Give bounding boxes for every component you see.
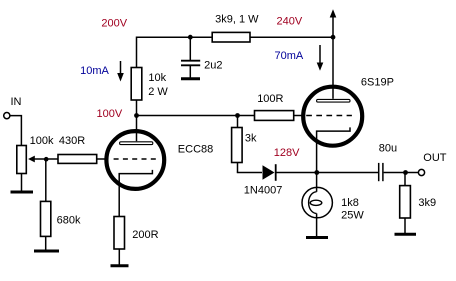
- 6S19P envelope circle: [303, 87, 362, 146]
- node junction dot output node: [403, 170, 408, 175]
- diode D1 1N4007: [263, 164, 276, 181]
- svg-text:2u2: 2u2: [204, 59, 222, 71]
- triode U1 ECC88: [106, 116, 164, 217]
- node junction dot grid node: [44, 157, 49, 162]
- svg-text:680k: 680k: [57, 214, 81, 226]
- terminal OUT: [418, 169, 424, 175]
- svg-text:70mA: 70mA: [275, 50, 304, 62]
- svg-text:430R: 430R: [59, 135, 85, 147]
- svg-text:1k8: 1k8: [341, 197, 359, 209]
- wire 100R to 6S19P grid: [294, 115, 303, 117]
- node junction dot 3k top: [235, 113, 240, 118]
- resistor 430R (horizontal): [46, 155, 107, 164]
- wire pot bottom to ground: [21, 174, 23, 192]
- svg-text:1N4007: 1N4007: [244, 185, 283, 197]
- svg-text:2 W: 2 W: [148, 86, 168, 98]
- B+ supply up arrow: [330, 9, 337, 36]
- 6S19P cathode: [317, 127, 350, 172]
- ground under 200R: [111, 264, 129, 267]
- ground under output 3k9: [395, 233, 417, 236]
- ground under lamp: [306, 236, 328, 239]
- svg-text:10mA: 10mA: [80, 65, 109, 77]
- current arrow 10mA (down): [117, 61, 124, 82]
- resistor 3k9 output (vertical): [400, 173, 411, 234]
- triode U2 6S19P: [303, 37, 362, 172]
- 6S19P grid (dashed): [306, 115, 352, 117]
- lamp filament loop: [309, 192, 317, 214]
- svg-text:100k: 100k: [30, 135, 54, 147]
- svg-text:100V: 100V: [97, 108, 123, 120]
- svg-text:3k9: 3k9: [418, 197, 436, 209]
- wire anode row: 100V node to 6S19P grid: [137, 115, 255, 117]
- resistor 10k 2W (vertical): [131, 68, 142, 101]
- svg-text:6S19P: 6S19P: [361, 77, 394, 89]
- node junction dot 100V node: [134, 113, 139, 118]
- terminal IN: [4, 113, 10, 119]
- wire diode to cathode node: [276, 172, 378, 174]
- ground under 2u2: [181, 77, 200, 80]
- potentiometer 100k body: [17, 146, 27, 174]
- resistor 680k (vertical): [41, 159, 51, 250]
- wire 80u to OUT: [384, 172, 419, 174]
- svg-text:10k: 10k: [148, 72, 166, 84]
- ECC88 grid (dashed): [114, 158, 156, 160]
- svg-text:240V: 240V: [277, 15, 303, 27]
- 6S19P anode lead: [332, 37, 334, 99]
- lamp LP1 1k8 25W: [302, 173, 332, 237]
- svg-text:128V: 128V: [274, 147, 300, 159]
- svg-text:OUT: OUT: [423, 152, 447, 164]
- resistor 3k (vertical): [232, 116, 243, 173]
- resistor 200R (vertical): [114, 217, 125, 265]
- ECC88 envelope circle: [106, 131, 164, 189]
- wire 2u2 to ground: [189, 66, 191, 78]
- svg-text:100R: 100R: [257, 93, 283, 105]
- wire IN to pot top: [10, 116, 21, 146]
- 6S19P plate: [317, 99, 350, 102]
- ECC88 anode lead: [136, 116, 138, 142]
- resistor 100R (horizontal): [255, 111, 294, 121]
- svg-text:IN: IN: [11, 96, 22, 108]
- node junction dot top rail at 2u2 tap: [188, 35, 193, 40]
- wire 10k bottom to 100V node: [136, 100, 138, 116]
- wire top rail from 10k top to 6S19P anode: [137, 37, 334, 67]
- node junction dot top rail at 6S19P anode: [331, 35, 336, 40]
- svg-text:200V: 200V: [101, 18, 127, 30]
- ECC88 plate: [120, 142, 153, 145]
- current arrow 70mA (down): [317, 45, 324, 71]
- wire 3k bottom to diode: [237, 172, 262, 174]
- capacitor 80u plates: [379, 163, 383, 181]
- svg-text:200R: 200R: [132, 229, 158, 241]
- capacitor C 2u2 plates: [181, 61, 200, 66]
- node junction dot cathode node: [314, 170, 319, 175]
- svg-text:ECC88: ECC88: [178, 143, 213, 155]
- capacitor C 2u2 lead: [189, 37, 191, 60]
- svg-text:3k: 3k: [245, 133, 257, 145]
- ground under 680k: [34, 250, 59, 253]
- resistor 3k9 1W (top, horizontal): [212, 32, 250, 42]
- ECC88 cathode: [119, 170, 152, 217]
- potentiometer wiper arrow: [28, 156, 46, 163]
- svg-text:25W: 25W: [341, 210, 364, 222]
- svg-text:3k9, 1 W: 3k9, 1 W: [215, 14, 259, 26]
- svg-text:80u: 80u: [379, 143, 397, 155]
- ground under pot: [11, 191, 34, 194]
